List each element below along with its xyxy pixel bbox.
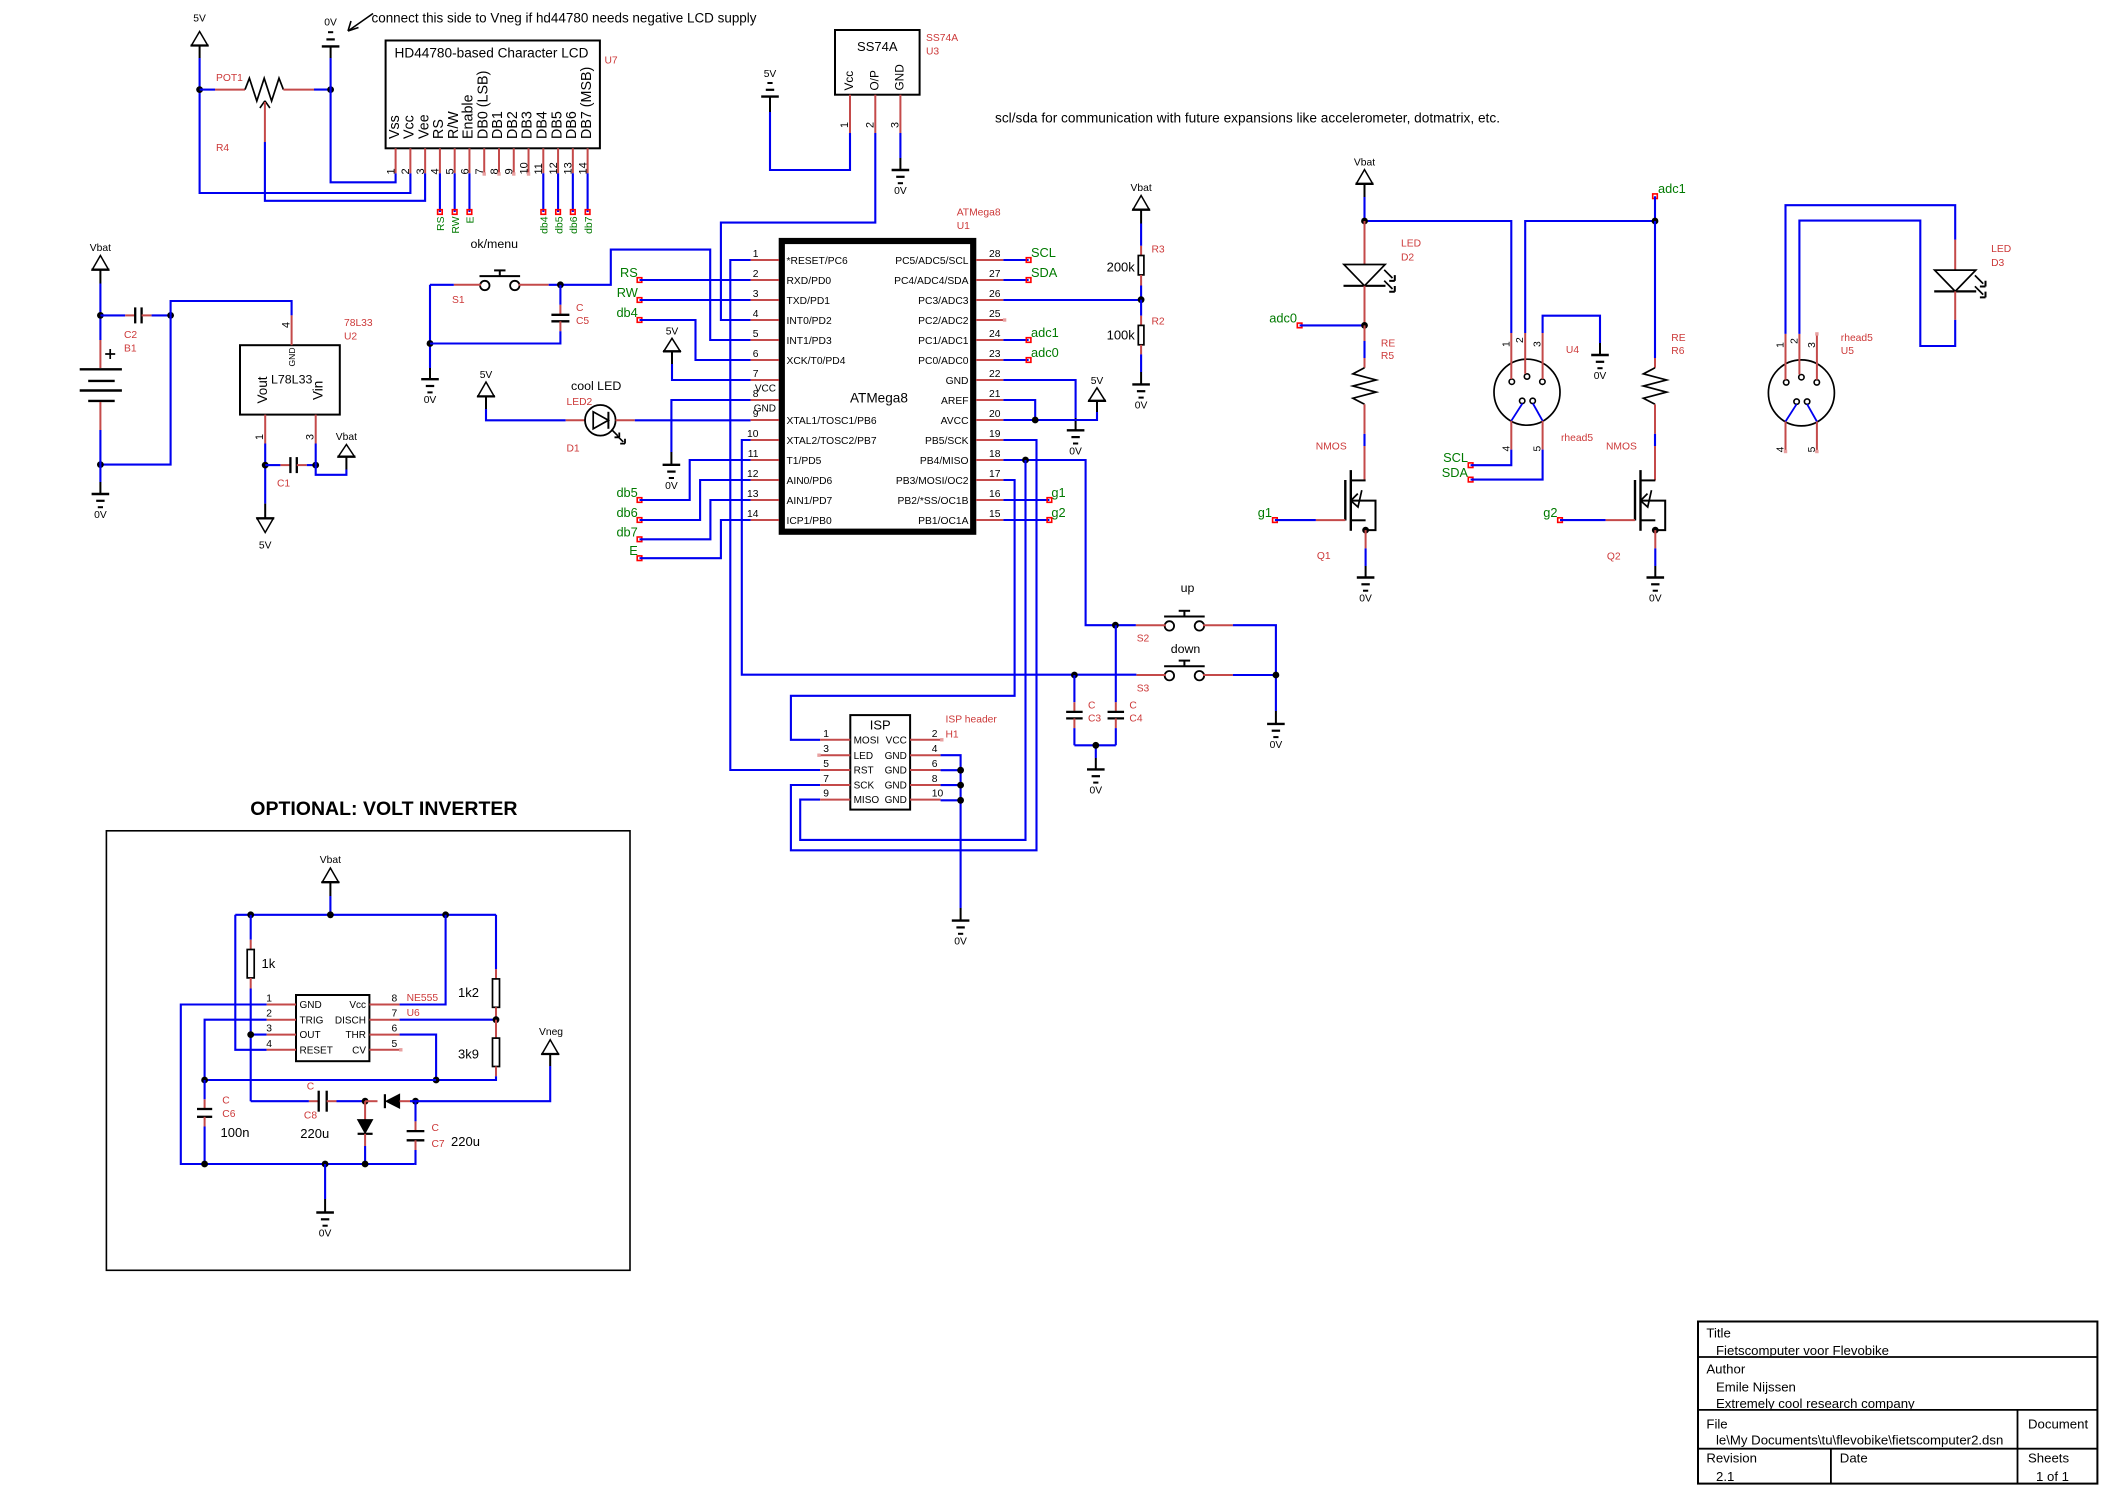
labels rhead5 U5 — [1841, 333, 1873, 357]
svg-text:14: 14 — [747, 509, 759, 520]
switch S2 (up) — [1136, 611, 1233, 645]
capacitor C3 — [1066, 675, 1101, 745]
ground 0V (inverter) — [316, 1213, 334, 1240]
net label RW (at ATMega8) — [617, 285, 642, 302]
svg-text:1: 1 — [1501, 341, 1512, 347]
ground 0V (U4) — [1591, 355, 1609, 382]
svg-text:PC2/ADC2: PC2/ADC2 — [918, 316, 969, 327]
svg-text:Fietscomputer voor Flevobike: Fietscomputer voor Flevobike — [1716, 1343, 1889, 1358]
svg-text:1: 1 — [753, 249, 759, 260]
labels C C5 — [576, 303, 589, 327]
net label adc1 (at ATMega8) — [1003, 325, 1058, 342]
svg-text:rhead5: rhead5 — [1841, 333, 1873, 344]
svg-text:5V: 5V — [259, 541, 272, 552]
svg-text:GND: GND — [300, 1000, 322, 1011]
svg-text:10: 10 — [747, 429, 759, 440]
svg-text:Date: Date — [1840, 1451, 1868, 1466]
annotation text ok/menu — [471, 237, 519, 251]
svg-text:0V: 0V — [424, 395, 437, 406]
net label db4 (at LCD) — [540, 210, 551, 234]
svg-text:R/W: R/W — [446, 111, 462, 139]
svg-text:LED2: LED2 — [567, 397, 593, 408]
wire Q1 source to ground — [1365, 530, 1367, 577]
svg-text:Vbat: Vbat — [1354, 158, 1375, 169]
wire U4 pin 3 to ground — [1543, 316, 1600, 355]
svg-text:3: 3 — [1533, 341, 1544, 347]
wire 5V to POT1 and LCD pin 2 — [200, 58, 411, 193]
resistor R5 — [1353, 325, 1395, 446]
svg-text:0V: 0V — [1649, 594, 1662, 605]
svg-text:OUT: OUT — [300, 1030, 321, 1041]
svg-text:DISCH: DISCH — [335, 1015, 366, 1026]
annotation text cool LED — [571, 379, 621, 393]
title block frame — [1698, 1322, 2097, 1484]
svg-text:B1: B1 — [124, 344, 137, 355]
node AREF-AVCC junction — [1032, 417, 1039, 424]
LCD U7 pin names — [387, 67, 595, 139]
wire 1k to OUT and RESET — [251, 989, 267, 1102]
svg-text:5V: 5V — [666, 327, 679, 338]
ground 0V (Q1) — [1357, 578, 1375, 605]
svg-text:GND: GND — [885, 781, 907, 792]
svg-text:3: 3 — [823, 744, 829, 755]
ground 0V (battery) — [92, 494, 110, 521]
svg-text:RE: RE — [1381, 338, 1395, 349]
annotation text: connect this side to Vneg — [372, 11, 757, 26]
svg-text:adc0: adc0 — [1269, 310, 1297, 325]
wire Q2 source to ground — [1654, 530, 1656, 577]
svg-text:ATMega8: ATMega8 — [957, 208, 1001, 219]
svg-text:AVCC: AVCC — [941, 416, 969, 427]
node C8-diode junction — [362, 1098, 369, 1105]
svg-text:C5: C5 — [576, 316, 589, 327]
svg-text:Q2: Q2 — [1607, 552, 1621, 563]
wire Vneg net — [416, 1066, 551, 1101]
node DISCH junction — [493, 1016, 500, 1023]
svg-text:Vin: Vin — [311, 381, 326, 400]
wire ISP GND pins to ground — [941, 755, 961, 920]
svg-text:2: 2 — [932, 729, 938, 740]
net label E (at ATMega8) — [629, 543, 642, 560]
svg-text:SDA: SDA — [1031, 265, 1058, 280]
annotation title OPTIONAL: VOLT INVERTER — [250, 798, 517, 820]
svg-text:DB4: DB4 — [535, 111, 551, 139]
resistor R6 — [1643, 221, 1685, 446]
svg-text:U7: U7 — [605, 56, 618, 67]
svg-text:27: 27 — [989, 269, 1001, 280]
svg-text:D3: D3 — [1991, 258, 2004, 269]
capacitor C2 — [100, 307, 170, 323]
svg-text:220u: 220u — [300, 1126, 329, 1141]
wire C2 junction down to battery minus — [100, 315, 170, 464]
svg-text:E: E — [466, 216, 477, 223]
svg-text:C: C — [307, 1081, 315, 1092]
svg-text:adc1: adc1 — [1658, 181, 1686, 196]
svg-text:Vcc: Vcc — [349, 1000, 366, 1011]
svg-text:Q1: Q1 — [1317, 551, 1331, 562]
svg-text:0V: 0V — [319, 1229, 332, 1240]
node C6 bottom junction — [201, 1161, 208, 1168]
net label SDA (at ATMega8) — [1003, 265, 1057, 282]
power symbol 5V (cool LED) — [477, 370, 495, 409]
svg-text:H1: H1 — [946, 730, 959, 741]
svg-text:R6: R6 — [1671, 346, 1684, 357]
svg-text:5V: 5V — [1091, 376, 1104, 387]
svg-text:DB1: DB1 — [490, 111, 506, 139]
svg-text:2.1: 2.1 — [1716, 1469, 1734, 1484]
ISP pin stubs — [820, 740, 940, 800]
svg-text:17: 17 — [989, 469, 1001, 480]
net label db4 (at ATMega8) — [616, 305, 641, 322]
ATMega8 left pin names — [754, 256, 877, 527]
node 0V rail junction — [322, 1161, 329, 1168]
wire RS to pin 2 — [640, 279, 751, 281]
svg-text:XCK/T0/PD4: XCK/T0/PD4 — [787, 356, 846, 367]
node THR junction — [433, 1077, 440, 1084]
svg-text:GND: GND — [885, 766, 907, 777]
svg-text:12: 12 — [747, 469, 759, 480]
net label adc0 (at D2) — [1269, 310, 1302, 327]
svg-text:db7: db7 — [584, 216, 595, 234]
svg-text:24: 24 — [989, 329, 1001, 340]
wire U4 pin 2 to adc1 and R6 — [1525, 196, 1655, 333]
resistor 1k2 — [458, 969, 500, 1020]
svg-text:R3: R3 — [1152, 245, 1165, 256]
svg-text:CV: CV — [352, 1045, 366, 1056]
svg-text:GND: GND — [885, 795, 907, 806]
svg-text:PB1/OC1A: PB1/OC1A — [918, 516, 968, 527]
potentiometer POT1 — [200, 73, 331, 142]
svg-text:100k: 100k — [1107, 328, 1136, 343]
power symbol 5V (SS74A) — [761, 69, 779, 112]
svg-text:AIN1/PD7: AIN1/PD7 — [787, 496, 833, 507]
wire pin 26 to R divider — [1003, 299, 1141, 301]
svg-text:DB3: DB3 — [520, 111, 536, 139]
svg-text:g2: g2 — [1051, 505, 1065, 520]
wire SS74A pin 2 O/P to ATMega8 INT0 — [721, 133, 875, 320]
ground 0V (switches) — [1267, 724, 1285, 751]
ground 0V (S1) — [421, 379, 439, 406]
wire db4 to pin 6 — [640, 320, 751, 360]
svg-text:S1: S1 — [452, 295, 465, 306]
svg-text:SCL: SCL — [1031, 245, 1056, 260]
svg-text:T1/PD5: T1/PD5 — [787, 456, 822, 467]
svg-text:13: 13 — [747, 489, 759, 500]
svg-text:1: 1 — [839, 122, 851, 128]
wire pin 22 GND to ground — [1003, 380, 1075, 430]
svg-text:8: 8 — [392, 994, 398, 1005]
ground 0V (ATMega8 GND pin 8) — [663, 465, 681, 492]
wire LCD pin 6 to net E — [468, 173, 470, 212]
svg-text:NMOS: NMOS — [1316, 442, 1347, 453]
svg-text:8: 8 — [932, 774, 938, 785]
svg-text:C1: C1 — [277, 479, 290, 490]
wire NE555 GND pin 1 to bottom rail — [181, 1005, 415, 1165]
svg-text:S3: S3 — [1137, 683, 1150, 694]
svg-text:28: 28 — [989, 249, 1001, 260]
wire pin 19 SCK to ISP — [791, 440, 1037, 850]
svg-text:2: 2 — [266, 1009, 272, 1020]
svg-text:0V: 0V — [1359, 594, 1372, 605]
svg-text:Title: Title — [1706, 1326, 1730, 1341]
svg-text:O/P: O/P — [868, 70, 882, 90]
wire C2 to 78L33 GND pin 4 — [171, 301, 292, 315]
svg-text:HD44780-based Character LCD: HD44780-based Character LCD — [395, 46, 589, 61]
svg-text:PC4/ADC4/SDA: PC4/ADC4/SDA — [894, 276, 969, 287]
wire 0V to LCD pin 1 — [331, 58, 396, 182]
svg-text:RW: RW — [617, 285, 639, 300]
power symbol Vbat (inverter) — [320, 855, 341, 896]
ATMega8 pin 25 unconnected — [1003, 318, 1006, 321]
svg-text:NE555: NE555 — [407, 993, 439, 1004]
NE555 pin stubs and numbers — [266, 994, 399, 1050]
svg-text:up: up — [1181, 581, 1195, 595]
svg-text:down: down — [1171, 642, 1201, 656]
svg-text:2: 2 — [864, 122, 876, 128]
svg-text:0V: 0V — [954, 937, 967, 948]
node S1 ground junction — [427, 340, 434, 347]
svg-text:RST: RST — [854, 766, 874, 777]
wire pin 8 GND to ground — [671, 400, 750, 465]
svg-text:4: 4 — [753, 309, 759, 320]
node rail Vcc junction — [442, 911, 449, 918]
svg-text:15: 15 — [989, 509, 1001, 520]
svg-text:5: 5 — [392, 1039, 398, 1050]
svg-text:GND: GND — [893, 64, 907, 90]
switch S3 (down) — [1136, 661, 1233, 695]
ground 0V (SS74A) — [892, 170, 910, 197]
svg-text:RXD/PD0: RXD/PD0 — [787, 276, 832, 287]
ATMega8 left pin numbers — [747, 249, 759, 520]
volt inverter outline box — [106, 831, 630, 1271]
wire rail to NE555 RESET pin 4 — [235, 915, 266, 1050]
ATMega8 right pin stubs — [976, 260, 1003, 520]
svg-text:connect this side to Vneg if h: connect this side to Vneg if hd44780 nee… — [372, 11, 757, 26]
svg-text:Emile Nijssen: Emile Nijssen — [1716, 1380, 1796, 1395]
svg-text:Revision: Revision — [1706, 1451, 1757, 1466]
svg-text:1: 1 — [254, 434, 266, 440]
capacitor C4 — [1108, 625, 1143, 745]
reed sensor U3 SS74A box — [835, 30, 920, 95]
svg-text:0V: 0V — [665, 481, 678, 492]
wire 78L33 Vin pin 3 — [315, 444, 317, 466]
svg-text:RESET: RESET — [300, 1045, 333, 1056]
svg-text:U6: U6 — [407, 1008, 420, 1019]
svg-text:DB7 (MSB): DB7 (MSB) — [579, 67, 595, 139]
wire LCD pin 11 to net db4 — [542, 173, 544, 212]
node Vin junction — [312, 462, 319, 469]
annotation arrow to 0V — [348, 14, 373, 32]
wire g1 to Q1 gate — [1275, 519, 1345, 521]
net label E (at LCD) — [466, 210, 477, 224]
ISP pin 2 VCC unconnected — [940, 738, 943, 741]
connector U4 rhead5 — [1494, 333, 1560, 452]
node battery minus junction — [97, 461, 104, 468]
svg-text:MOSI: MOSI — [854, 735, 880, 746]
labels C2 B1 — [124, 330, 137, 355]
svg-text:RS: RS — [431, 119, 447, 139]
annotation text down — [1171, 642, 1201, 656]
wire S1 right junction to ATMega8 INT1 — [549, 250, 751, 340]
svg-text:adc0: adc0 — [1031, 345, 1059, 360]
svg-text:SDA: SDA — [1442, 465, 1469, 480]
svg-text:20: 20 — [989, 409, 1001, 420]
svg-text:2: 2 — [1789, 338, 1800, 344]
node rail Vbat junction — [327, 911, 334, 918]
net label SCL (at U4) — [1443, 450, 1473, 467]
net label adc1 (top right) — [1653, 181, 1686, 198]
svg-text:GND: GND — [946, 376, 969, 387]
wire pin 21 AREF to AVCC node — [1003, 400, 1035, 420]
svg-text:22: 22 — [989, 369, 1001, 380]
svg-text:GND: GND — [754, 404, 776, 415]
svg-text:adc1: adc1 — [1031, 325, 1059, 340]
node Q1 source junction — [1362, 527, 1369, 534]
LCD U7 unconnected pins 7-10 — [483, 172, 531, 175]
svg-text:g2: g2 — [1543, 505, 1557, 520]
svg-text:5V: 5V — [764, 69, 777, 80]
net label db5 (at LCD) — [554, 210, 565, 234]
wire db5 to pin 11 — [640, 460, 751, 500]
svg-text:C: C — [432, 1123, 440, 1134]
svg-text:DB5: DB5 — [549, 111, 565, 139]
svg-text:0V: 0V — [324, 18, 337, 29]
node Vout junction — [262, 462, 269, 469]
wire NE555 Vcc pin 8 to rail — [400, 915, 446, 1005]
wire pin 10 XTAL2 to down switch row — [742, 440, 1137, 675]
svg-text:0V: 0V — [1069, 446, 1082, 457]
svg-text:db4: db4 — [616, 305, 637, 320]
svg-text:D2: D2 — [1401, 252, 1414, 263]
power symbol Vneg — [539, 1027, 563, 1066]
node MISO junction — [1022, 457, 1029, 464]
svg-text:7: 7 — [753, 369, 759, 380]
svg-text:2: 2 — [1515, 337, 1526, 343]
wire LCD pin 14 to net db7 — [587, 173, 589, 212]
labels NE555 U6 — [407, 993, 439, 1019]
svg-text:Author: Author — [1706, 1362, 1745, 1377]
svg-text:POT1: POT1 — [216, 73, 243, 84]
svg-text:rhead5: rhead5 — [1561, 433, 1593, 444]
svg-text:23: 23 — [989, 349, 1001, 360]
svg-text:RS: RS — [620, 265, 638, 280]
wire SCL to U4 pin 4 — [1471, 450, 1512, 466]
svg-text:C: C — [1088, 701, 1096, 712]
timer U6 NE555 box — [296, 995, 369, 1061]
svg-text:U1: U1 — [957, 221, 970, 232]
power symbol Vbat (right of regulator) — [336, 432, 357, 470]
node ISP GND junction pin 6 — [957, 767, 964, 774]
svg-text:ICP1/PB0: ICP1/PB0 — [787, 516, 832, 527]
svg-text:RS: RS — [436, 216, 447, 231]
label U7 — [605, 56, 618, 67]
net label g2 (at Q2) — [1543, 505, 1562, 522]
label NMOS (Q2) — [1606, 442, 1637, 453]
wire pin 1 RESET to ISP RST — [730, 260, 820, 770]
svg-text:Extremely cool research compan: Extremely cool research company — [1716, 1396, 1915, 1411]
svg-text:cool LED: cool LED — [571, 379, 621, 393]
LED D2 — [1344, 221, 1422, 325]
svg-text:D1: D1 — [567, 444, 580, 455]
svg-text:DB0 (LSB): DB0 (LSB) — [475, 71, 491, 139]
node diode-C7 junction — [412, 1098, 419, 1105]
svg-text:9: 9 — [823, 789, 829, 800]
svg-text:220u: 220u — [451, 1134, 480, 1149]
svg-text:ATMega8: ATMega8 — [850, 391, 908, 406]
wire LCD pin 12 to net db5 — [557, 173, 559, 212]
node S1-C5 junction — [557, 281, 564, 288]
wire POT1 wiper to LCD pin 3 (Vee) — [265, 142, 425, 201]
ISP pin names — [854, 735, 907, 806]
svg-text:SCK: SCK — [854, 781, 875, 792]
svg-text:db4: db4 — [540, 216, 551, 234]
node down row C3 junction — [1071, 672, 1078, 679]
voltage regulator U2 L78L33 box — [240, 345, 340, 414]
ISP pin 3 LED unconnected — [817, 754, 820, 757]
ATMega8 left pin stubs — [751, 260, 779, 520]
wire pin 17 MOSI to ISP — [791, 480, 1015, 740]
svg-text:U2: U2 — [344, 332, 357, 343]
svg-text:Sheets: Sheets — [2028, 1451, 2069, 1466]
labels ATMega8 U1 — [957, 208, 1001, 233]
wire 5V to SS74A pin 1 — [770, 112, 850, 170]
svg-text:3k9: 3k9 — [458, 1047, 479, 1062]
svg-text:RE: RE — [1671, 333, 1685, 344]
svg-text:7: 7 — [823, 774, 829, 785]
net label db7 (at LCD) — [584, 210, 595, 234]
labels ISP header H1 — [946, 715, 998, 741]
svg-text:Vbat: Vbat — [336, 432, 357, 443]
wire db7 to pin 13 — [640, 500, 751, 539]
wire E to pin 14 — [640, 520, 751, 558]
wire NE555 DISCH pin 7 to 1k2/3k9 — [400, 1019, 496, 1021]
svg-text:Vbat: Vbat — [90, 243, 111, 254]
svg-text:C8: C8 — [304, 1111, 317, 1122]
node TRIG-C6 junction — [201, 1077, 208, 1084]
wire RW to pin 3 — [640, 299, 751, 301]
wire S2 right to ground rail — [1233, 625, 1276, 675]
svg-text:21: 21 — [989, 389, 1001, 400]
node S2-C4 junction — [1112, 622, 1119, 629]
connector U5 rhead5 — [1768, 332, 1834, 453]
wire LCD pin 4 to net RS — [439, 173, 441, 212]
svg-text:RW: RW — [451, 216, 462, 233]
wire SDA to U4 pin 5 — [1471, 450, 1543, 480]
svg-text:C4: C4 — [1129, 713, 1142, 724]
svg-text:1 of 1: 1 of 1 — [2036, 1469, 2069, 1484]
svg-text:R5: R5 — [1381, 351, 1394, 362]
svg-text:3: 3 — [266, 1024, 272, 1035]
SS74A pin stubs and numbers — [839, 95, 901, 133]
resistor R3 200k — [1107, 224, 1165, 300]
svg-text:Vbat: Vbat — [320, 855, 341, 866]
NE555 pin 5 CV unconnected — [399, 1048, 402, 1051]
svg-text:TXD/PD1: TXD/PD1 — [787, 296, 831, 307]
wire S3 right to ground rail — [1233, 675, 1276, 724]
LED D1 (cool LED) — [566, 397, 635, 455]
LCD U7 pin stubs — [396, 148, 588, 173]
net label RW (at LCD) — [451, 210, 462, 234]
svg-text:TRIG: TRIG — [300, 1015, 324, 1026]
power symbol 5V (ATMega8 VCC pin 7) — [663, 327, 681, 365]
ground 0V (C3-C4) — [1087, 769, 1105, 796]
net label g1 (at Q1) — [1258, 505, 1277, 522]
svg-text:Vcc: Vcc — [402, 115, 418, 139]
svg-text:1: 1 — [266, 994, 272, 1005]
svg-text:5V: 5V — [480, 370, 493, 381]
svg-text:1k: 1k — [262, 956, 276, 971]
wire g2 to Q2 gate — [1560, 519, 1635, 521]
